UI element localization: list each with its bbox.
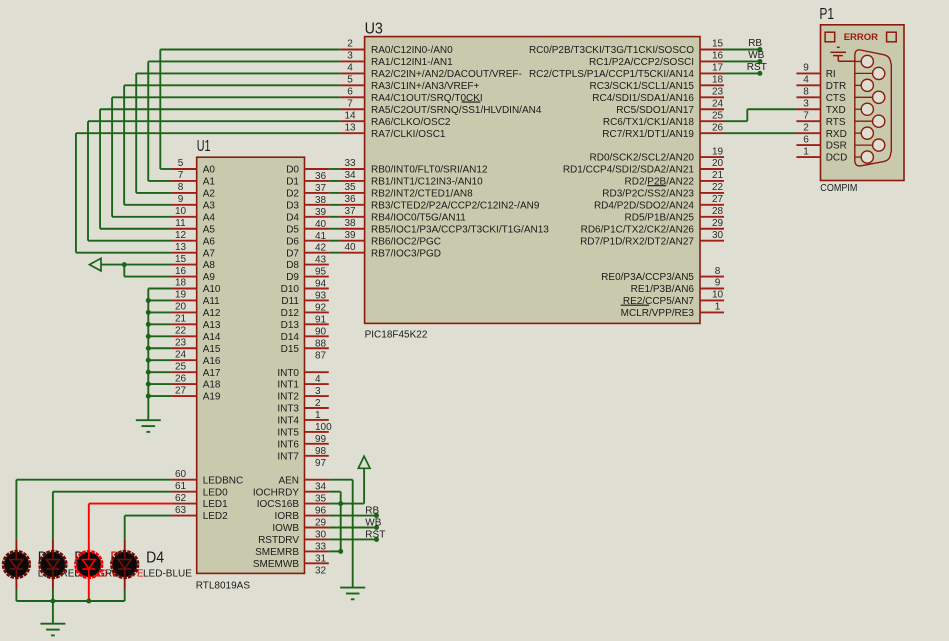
svg-text:A12: A12 bbox=[203, 308, 221, 319]
svg-text:TXD: TXD bbox=[826, 105, 846, 116]
svg-text:23: 23 bbox=[712, 87, 724, 98]
svg-text:RA5/C2OUT/SRNQ/SS1/HLVDIN/AN4: RA5/C2OUT/SRNQ/SS1/HLVDIN/AN4 bbox=[371, 105, 542, 116]
svg-text:20: 20 bbox=[175, 302, 187, 313]
svg-text:A4: A4 bbox=[203, 212, 216, 223]
svg-text:P1: P1 bbox=[819, 6, 834, 23]
svg-text:9: 9 bbox=[715, 278, 721, 289]
svg-text:97: 97 bbox=[315, 458, 327, 469]
svg-text:INT0: INT0 bbox=[277, 368, 299, 379]
svg-text:D12: D12 bbox=[281, 308, 300, 319]
svg-text:D15: D15 bbox=[281, 344, 300, 355]
svg-text:19: 19 bbox=[175, 290, 187, 301]
svg-text:26: 26 bbox=[175, 373, 187, 384]
svg-text:RD3/P2C/SS2/AN23: RD3/P2C/SS2/AN23 bbox=[602, 189, 694, 200]
svg-text:A14: A14 bbox=[203, 332, 221, 343]
svg-text:D3: D3 bbox=[286, 200, 299, 211]
svg-text:33: 33 bbox=[344, 158, 356, 169]
svg-text:32: 32 bbox=[315, 565, 327, 576]
svg-text:RB3/CTED2/P2A/CCP2/C12IN2-/AN9: RB3/CTED2/P2A/CCP2/C12IN2-/AN9 bbox=[371, 200, 540, 211]
svg-text:8: 8 bbox=[715, 266, 721, 277]
svg-text:27: 27 bbox=[175, 385, 187, 396]
svg-text:U3: U3 bbox=[365, 21, 383, 38]
svg-text:A0: A0 bbox=[203, 165, 216, 176]
svg-text:RB0/INT0/FLT0/SRI/AN12: RB0/INT0/FLT0/SRI/AN12 bbox=[371, 165, 488, 176]
svg-text:A15: A15 bbox=[203, 344, 221, 355]
svg-text:INT2: INT2 bbox=[277, 392, 299, 403]
svg-text:LED2: LED2 bbox=[203, 511, 228, 522]
svg-text:LED0: LED0 bbox=[203, 487, 228, 498]
svg-text:SMEMWB: SMEMWB bbox=[253, 559, 299, 570]
svg-text:RST: RST bbox=[747, 62, 767, 73]
svg-text:A16: A16 bbox=[203, 356, 221, 367]
svg-text:RC4/SDI1/SDA1/AN16: RC4/SDI1/SDA1/AN16 bbox=[592, 93, 694, 104]
svg-text:12: 12 bbox=[175, 230, 187, 241]
svg-text:3: 3 bbox=[347, 51, 353, 62]
svg-text:RB: RB bbox=[748, 38, 762, 49]
svg-text:25: 25 bbox=[712, 110, 724, 121]
svg-text:A7: A7 bbox=[203, 248, 216, 259]
svg-text:8: 8 bbox=[803, 87, 809, 98]
svg-text:A19: A19 bbox=[203, 392, 221, 403]
svg-text:RC5/SDO1/AN17: RC5/SDO1/AN17 bbox=[616, 105, 694, 116]
svg-text:6: 6 bbox=[347, 87, 353, 98]
svg-text:34: 34 bbox=[344, 170, 356, 181]
svg-text:D9: D9 bbox=[286, 272, 299, 283]
svg-text:A2: A2 bbox=[203, 189, 216, 200]
svg-text:35: 35 bbox=[344, 182, 356, 193]
svg-text:22: 22 bbox=[175, 326, 187, 337]
svg-text:RA6/CLKO/OSC2: RA6/CLKO/OSC2 bbox=[371, 117, 451, 128]
svg-text:62: 62 bbox=[175, 493, 187, 504]
svg-text:RB2/INT2/CTED1/AN8: RB2/INT2/CTED1/AN8 bbox=[371, 189, 473, 200]
svg-text:28: 28 bbox=[712, 206, 724, 217]
svg-text:9: 9 bbox=[803, 63, 809, 74]
svg-text:37: 37 bbox=[344, 206, 356, 217]
svg-text:IOCHRDY: IOCHRDY bbox=[253, 487, 299, 498]
svg-text:SMEMRB: SMEMRB bbox=[255, 547, 299, 558]
svg-text:A17: A17 bbox=[203, 368, 221, 379]
svg-text:7: 7 bbox=[803, 110, 809, 121]
svg-text:CTS: CTS bbox=[826, 93, 846, 104]
svg-text:D4: D4 bbox=[146, 549, 164, 566]
svg-text:LED-BLUE: LED-BLUE bbox=[143, 569, 192, 580]
svg-text:15: 15 bbox=[712, 39, 724, 50]
svg-text:RC3/SCK1/SCL1/AN15: RC3/SCK1/SCL1/AN15 bbox=[590, 81, 695, 92]
svg-text:30: 30 bbox=[712, 230, 724, 241]
svg-text:RSTDRV: RSTDRV bbox=[258, 535, 299, 546]
svg-text:D10: D10 bbox=[281, 284, 300, 295]
svg-text:RB7/IOC3/PGD: RB7/IOC3/PGD bbox=[371, 248, 441, 259]
svg-text:INT5: INT5 bbox=[277, 428, 299, 439]
svg-text:2: 2 bbox=[803, 122, 809, 133]
svg-text:IORB: IORB bbox=[275, 511, 300, 522]
svg-text:RC7/RX1/DT1/AN19: RC7/RX1/DT1/AN19 bbox=[602, 129, 694, 140]
svg-text:RD5/P1B/AN25: RD5/P1B/AN25 bbox=[625, 212, 695, 223]
svg-text:14: 14 bbox=[344, 110, 356, 121]
svg-text:INT1: INT1 bbox=[277, 380, 299, 391]
svg-text:RI: RI bbox=[826, 69, 836, 80]
svg-text:15: 15 bbox=[175, 254, 187, 265]
svg-text:D4: D4 bbox=[286, 212, 299, 223]
svg-text:24: 24 bbox=[712, 98, 724, 109]
svg-text:RST: RST bbox=[365, 529, 385, 540]
svg-text:1: 1 bbox=[715, 302, 721, 313]
svg-text:RD1/CCP4/SDI2/SDA2/AN21: RD1/CCP4/SDI2/SDA2/AN21 bbox=[563, 165, 695, 176]
svg-text:A8: A8 bbox=[203, 260, 216, 271]
svg-text:13: 13 bbox=[175, 242, 187, 253]
svg-text:PIC18F45K22: PIC18F45K22 bbox=[365, 330, 428, 341]
svg-text:A11: A11 bbox=[203, 296, 220, 307]
svg-text:21: 21 bbox=[712, 170, 724, 181]
svg-text:60: 60 bbox=[175, 469, 187, 480]
svg-text:RD4/P2D/SDO2/AN24: RD4/P2D/SDO2/AN24 bbox=[594, 200, 694, 211]
svg-text:D2: D2 bbox=[286, 189, 299, 200]
svg-text:RA2/C2IN+/AN2/DACOUT/VREF-: RA2/C2IN+/AN2/DACOUT/VREF- bbox=[371, 69, 522, 80]
svg-text:A9: A9 bbox=[203, 272, 216, 283]
svg-text:LEDBNC: LEDBNC bbox=[203, 475, 244, 486]
svg-text:RA1/C12IN1-/AN1: RA1/C12IN1-/AN1 bbox=[371, 57, 453, 68]
svg-text:RD7/P1D/RX2/DT2/AN27: RD7/P1D/RX2/DT2/AN27 bbox=[580, 236, 694, 247]
svg-text:19: 19 bbox=[712, 146, 724, 157]
svg-text:A13: A13 bbox=[203, 320, 221, 331]
svg-text:D8: D8 bbox=[286, 260, 299, 271]
svg-text:16: 16 bbox=[712, 51, 724, 62]
svg-text:25: 25 bbox=[175, 361, 187, 372]
svg-text:COMPIM: COMPIM bbox=[820, 183, 857, 194]
svg-text:RD6/P1C/TX2/CK2/AN26: RD6/P1C/TX2/CK2/AN26 bbox=[581, 224, 695, 235]
svg-text:29: 29 bbox=[712, 218, 724, 229]
svg-text:87: 87 bbox=[315, 350, 327, 361]
svg-text:A6: A6 bbox=[203, 236, 216, 247]
svg-text:MCLR/VPP/RE3: MCLR/VPP/RE3 bbox=[621, 308, 695, 319]
svg-text:WB: WB bbox=[365, 517, 381, 528]
svg-text:U1: U1 bbox=[197, 138, 211, 155]
svg-text:RTL8019AS: RTL8019AS bbox=[196, 581, 251, 592]
svg-text:7: 7 bbox=[178, 170, 184, 181]
svg-text:AEN: AEN bbox=[278, 475, 299, 486]
svg-text:18: 18 bbox=[712, 75, 724, 86]
svg-text:6: 6 bbox=[803, 134, 809, 145]
svg-text:23: 23 bbox=[175, 337, 187, 348]
svg-text:D1: D1 bbox=[286, 177, 299, 188]
svg-text:39: 39 bbox=[344, 230, 356, 241]
svg-text:RC0/P2B/T3CKI/T3G/T1CKI/SOSCO: RC0/P2B/T3CKI/T3G/T1CKI/SOSCO bbox=[529, 45, 694, 56]
svg-text:RA3/C1IN+/AN3/VREF+: RA3/C1IN+/AN3/VREF+ bbox=[371, 81, 480, 92]
svg-text:IOWB: IOWB bbox=[272, 523, 299, 534]
svg-text:D5: D5 bbox=[286, 224, 299, 235]
svg-text:40: 40 bbox=[344, 242, 356, 253]
svg-text:RB4/IOC0/T5G/AN11: RB4/IOC0/T5G/AN11 bbox=[371, 212, 466, 223]
svg-text:RC2/CTPLS/P1A/CCP1/T5CKI/AN14: RC2/CTPLS/P1A/CCP1/T5CKI/AN14 bbox=[529, 69, 694, 80]
svg-text:9: 9 bbox=[178, 194, 184, 205]
svg-text:LED1: LED1 bbox=[203, 499, 228, 510]
svg-text:RTS: RTS bbox=[826, 117, 846, 128]
svg-text:A10: A10 bbox=[203, 284, 221, 295]
svg-text:16: 16 bbox=[175, 266, 187, 277]
svg-text:1: 1 bbox=[803, 146, 809, 157]
svg-text:A1: A1 bbox=[203, 177, 216, 188]
svg-text:A5: A5 bbox=[203, 224, 216, 235]
svg-text:61: 61 bbox=[175, 481, 187, 492]
svg-text:WB: WB bbox=[748, 50, 764, 61]
svg-text:RE0/P3A/CCP3/AN5: RE0/P3A/CCP3/AN5 bbox=[601, 272, 694, 283]
svg-text:RD0/SCK2/SCL2/AN20: RD0/SCK2/SCL2/AN20 bbox=[590, 153, 695, 164]
svg-text:5: 5 bbox=[347, 75, 353, 86]
svg-text:10: 10 bbox=[712, 290, 724, 301]
svg-text:4: 4 bbox=[347, 63, 353, 74]
svg-text:10: 10 bbox=[175, 206, 187, 217]
svg-text:RA7/CLKI/OSC1: RA7/CLKI/OSC1 bbox=[371, 129, 446, 140]
svg-text:38: 38 bbox=[344, 218, 356, 229]
svg-text:D6: D6 bbox=[286, 236, 299, 247]
svg-text:13: 13 bbox=[344, 122, 356, 133]
svg-text:D0: D0 bbox=[286, 165, 299, 176]
svg-text:21: 21 bbox=[175, 314, 187, 325]
svg-text:A3: A3 bbox=[203, 200, 216, 211]
svg-text:RE1/P3B/AN6: RE1/P3B/AN6 bbox=[631, 284, 695, 295]
svg-text:8: 8 bbox=[178, 182, 184, 193]
svg-text:22: 22 bbox=[712, 182, 724, 193]
svg-text:D13: D13 bbox=[281, 320, 300, 331]
svg-text:26: 26 bbox=[712, 122, 724, 133]
svg-text:RB6/IOC2/PGC: RB6/IOC2/PGC bbox=[371, 236, 441, 247]
svg-text:INT7: INT7 bbox=[277, 451, 299, 462]
svg-text:RC6/TX1/CK1/AN18: RC6/TX1/CK1/AN18 bbox=[603, 117, 695, 128]
svg-text:27: 27 bbox=[712, 194, 724, 205]
svg-text:7: 7 bbox=[347, 98, 353, 109]
svg-text:RB1/INT1/C12IN3-/AN10: RB1/INT1/C12IN3-/AN10 bbox=[371, 177, 483, 188]
svg-text:24: 24 bbox=[175, 349, 187, 360]
svg-text:2: 2 bbox=[347, 39, 353, 50]
svg-text:RC1/P2A/CCP2/SOSCI: RC1/P2A/CCP2/SOSCI bbox=[589, 57, 694, 68]
svg-text:RXD: RXD bbox=[826, 129, 847, 140]
svg-text:DCD: DCD bbox=[826, 153, 848, 164]
svg-text:INT4: INT4 bbox=[277, 416, 299, 427]
svg-text:RB: RB bbox=[365, 506, 379, 517]
svg-text:INT6: INT6 bbox=[277, 439, 299, 450]
svg-text:17: 17 bbox=[712, 63, 724, 74]
svg-text:IOCS16B: IOCS16B bbox=[257, 499, 300, 510]
svg-text:DTR: DTR bbox=[826, 81, 847, 92]
svg-text:RA0/C12IN0-/AN0: RA0/C12IN0-/AN0 bbox=[371, 45, 453, 56]
svg-text:D7: D7 bbox=[286, 248, 299, 259]
svg-text:DSR: DSR bbox=[826, 141, 847, 152]
svg-text:ERROR: ERROR bbox=[844, 32, 878, 43]
svg-text:D14: D14 bbox=[281, 332, 300, 343]
svg-text:5: 5 bbox=[178, 158, 184, 169]
svg-text:36: 36 bbox=[344, 194, 356, 205]
svg-text:11: 11 bbox=[175, 218, 186, 229]
svg-text:20: 20 bbox=[712, 158, 724, 169]
svg-text:18: 18 bbox=[175, 278, 187, 289]
svg-text:INT3: INT3 bbox=[277, 404, 299, 415]
svg-text:RB5/IOC1/P3A/CCP3/T3CKI/T1G/AN: RB5/IOC1/P3A/CCP3/T3CKI/T1G/AN13 bbox=[371, 224, 549, 235]
svg-text:A18: A18 bbox=[203, 380, 221, 391]
svg-text:3: 3 bbox=[803, 98, 809, 109]
svg-text:4: 4 bbox=[803, 75, 809, 86]
svg-text:D11: D11 bbox=[281, 296, 299, 307]
svg-text:63: 63 bbox=[175, 505, 187, 516]
